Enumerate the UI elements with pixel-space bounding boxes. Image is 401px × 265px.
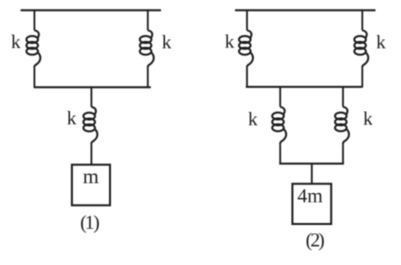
label k S1-left — [11, 35, 20, 48]
ceiling support 2 — [235, 9, 376, 11]
crossbar system 1 — [34, 86, 151, 88]
spring k (system 2 top left) — [239, 11, 253, 88]
caption (1) — [81, 215, 86, 233]
label k S2-BL — [248, 112, 257, 125]
spring k (system 2 bottom left) — [272, 88, 286, 165]
label k S2-TR — [376, 35, 385, 48]
crossbar system 2 upper — [246, 86, 362, 88]
ceiling support 1 — [21, 9, 161, 11]
spring k (system 1 left) — [26, 11, 40, 88]
spring k (system 2 bottom right) — [335, 88, 349, 165]
wire: right spring to crossbar 1 — [147, 86, 149, 89]
label 4m (mass 2) — [298, 189, 307, 202]
wire: left spring to crossbar 1 — [33, 86, 35, 89]
caption (2) — [306, 233, 311, 251]
spring k (system 1 middle series) — [83, 88, 97, 165]
spring k (system 1 right) — [140, 11, 154, 88]
mass box 4m — [292, 184, 331, 224]
label k S2-BR — [363, 111, 372, 124]
spring k (system 2 top right) — [354, 11, 368, 88]
label k S2-TL — [225, 34, 234, 47]
label k S1-right — [162, 35, 171, 48]
wire: center drop to mass 4m — [311, 164, 313, 184]
crossbar system 2 lower — [279, 163, 344, 165]
label k S1-mid — [67, 111, 76, 124]
label m (mass 1) — [83, 173, 98, 183]
mass box m — [72, 165, 110, 206]
